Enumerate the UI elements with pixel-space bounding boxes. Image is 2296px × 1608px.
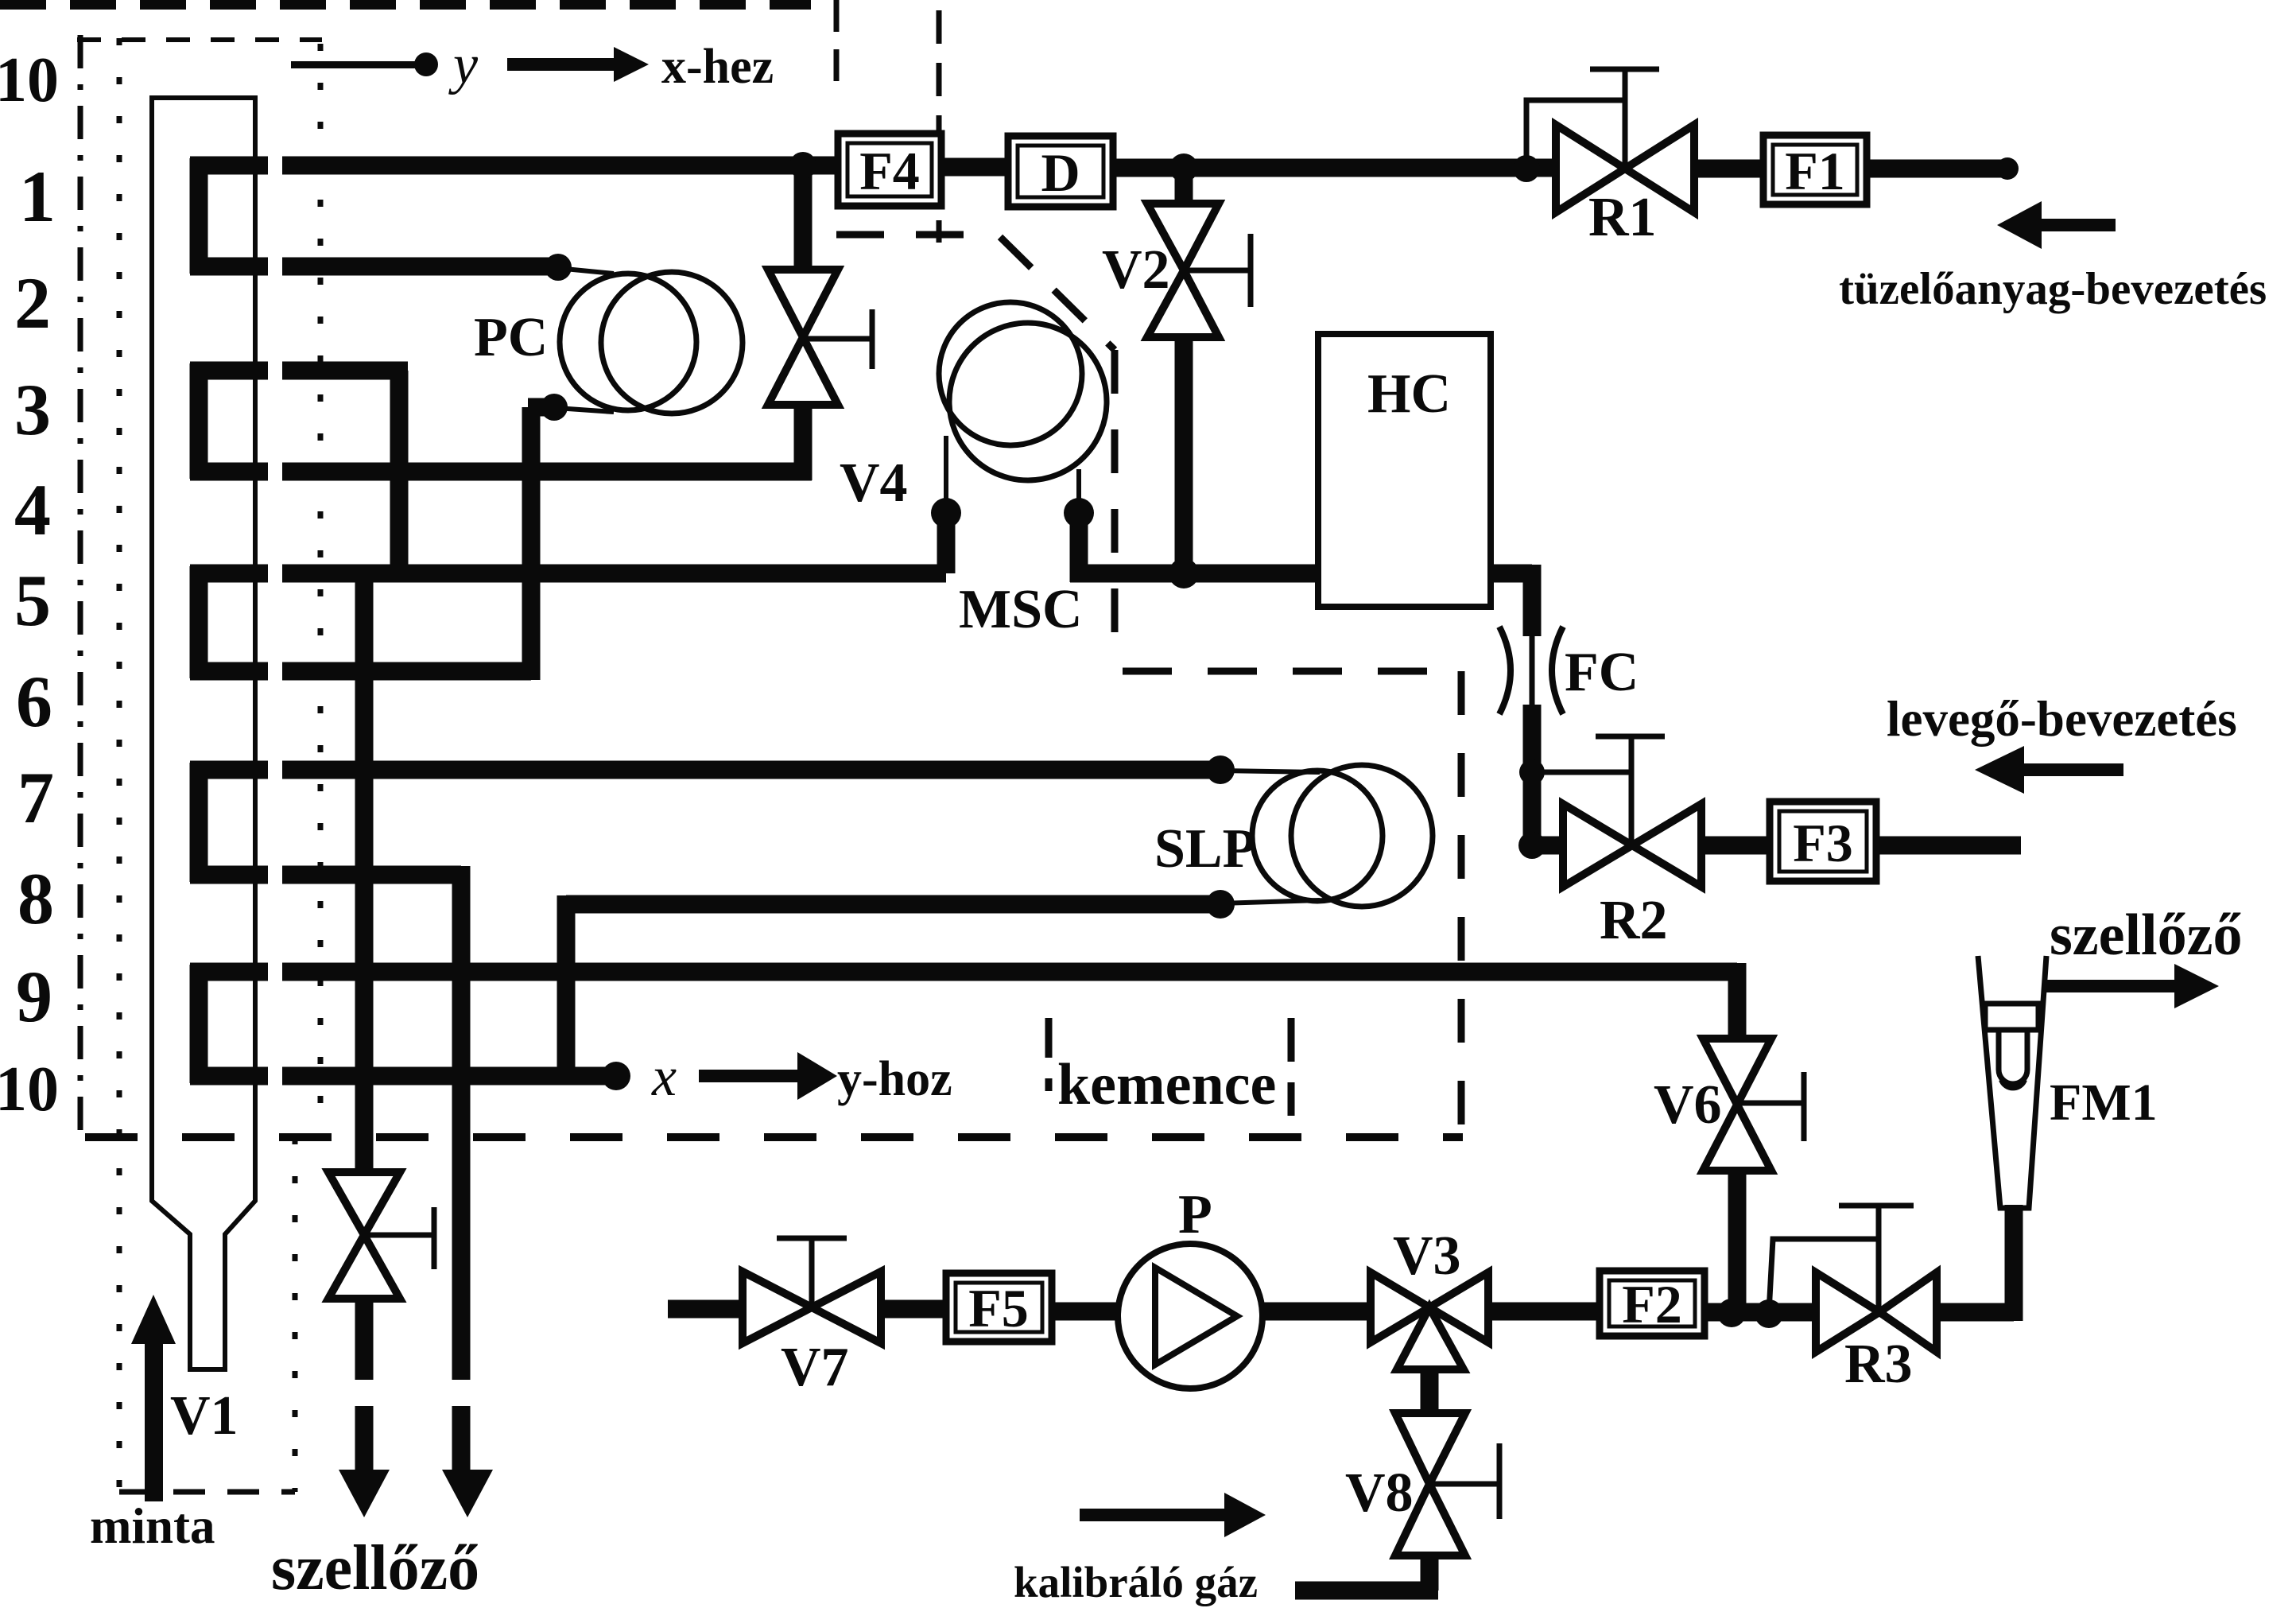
svg-text:SLP: SLP (1154, 818, 1256, 880)
svg-text:MSC: MSC (959, 579, 1083, 640)
svg-text:2: 2 (14, 262, 51, 344)
svg-text:x-hez: x-hez (661, 40, 774, 94)
svg-text:szellőző: szellőző (2050, 903, 2242, 968)
svg-text:V3: V3 (1393, 1225, 1461, 1287)
svg-text:V8: V8 (1345, 1462, 1414, 1524)
svg-text:minta: minta (90, 1498, 215, 1554)
svg-text:9: 9 (16, 956, 52, 1037)
svg-text:tüzelőanyag-bevezetés: tüzelőanyag-bevezetés (1839, 264, 2267, 314)
svg-text:8: 8 (17, 858, 54, 939)
svg-text:R2: R2 (1600, 890, 1668, 951)
svg-text:V2: V2 (1102, 239, 1170, 301)
svg-text:V1: V1 (170, 1385, 239, 1447)
svg-text:3: 3 (14, 369, 51, 450)
svg-text:V6: V6 (1654, 1074, 1722, 1136)
svg-text:F3: F3 (1793, 813, 1853, 873)
svg-text:y: y (448, 34, 479, 95)
svg-text:levegő-bevezetés: levegő-bevezetés (1887, 691, 2237, 747)
svg-text:10: 10 (0, 45, 59, 115)
svg-text:4: 4 (14, 469, 51, 550)
svg-text:F4: F4 (859, 141, 920, 201)
svg-text:szellőző: szellőző (271, 1533, 479, 1603)
svg-text:x: x (651, 1047, 677, 1108)
svg-text:7: 7 (17, 757, 54, 838)
svg-text:5: 5 (14, 560, 51, 641)
svg-text:F1: F1 (1785, 141, 1845, 201)
svg-text:10: 10 (0, 1055, 59, 1124)
svg-text:P: P (1178, 1184, 1212, 1245)
svg-text:6: 6 (16, 661, 52, 742)
svg-text:V7: V7 (781, 1337, 849, 1398)
svg-text:F2: F2 (1622, 1274, 1682, 1334)
svg-text:FC: FC (1565, 642, 1639, 703)
svg-text:HC: HC (1367, 363, 1451, 425)
svg-text:V4: V4 (840, 452, 908, 514)
svg-text:F5: F5 (968, 1278, 1029, 1338)
svg-text:FM1: FM1 (2050, 1074, 2158, 1132)
svg-text:PC: PC (474, 307, 548, 368)
svg-text:kalibráló gáz: kalibráló gáz (1014, 1558, 1258, 1606)
svg-text:R3: R3 (1844, 1334, 1913, 1395)
svg-text:D: D (1041, 142, 1080, 203)
svg-text:y-hoz: y-hoz (837, 1052, 952, 1106)
svg-text:1: 1 (19, 156, 56, 237)
svg-text:R1: R1 (1588, 187, 1657, 248)
svg-text:kemence: kemence (1057, 1052, 1276, 1117)
